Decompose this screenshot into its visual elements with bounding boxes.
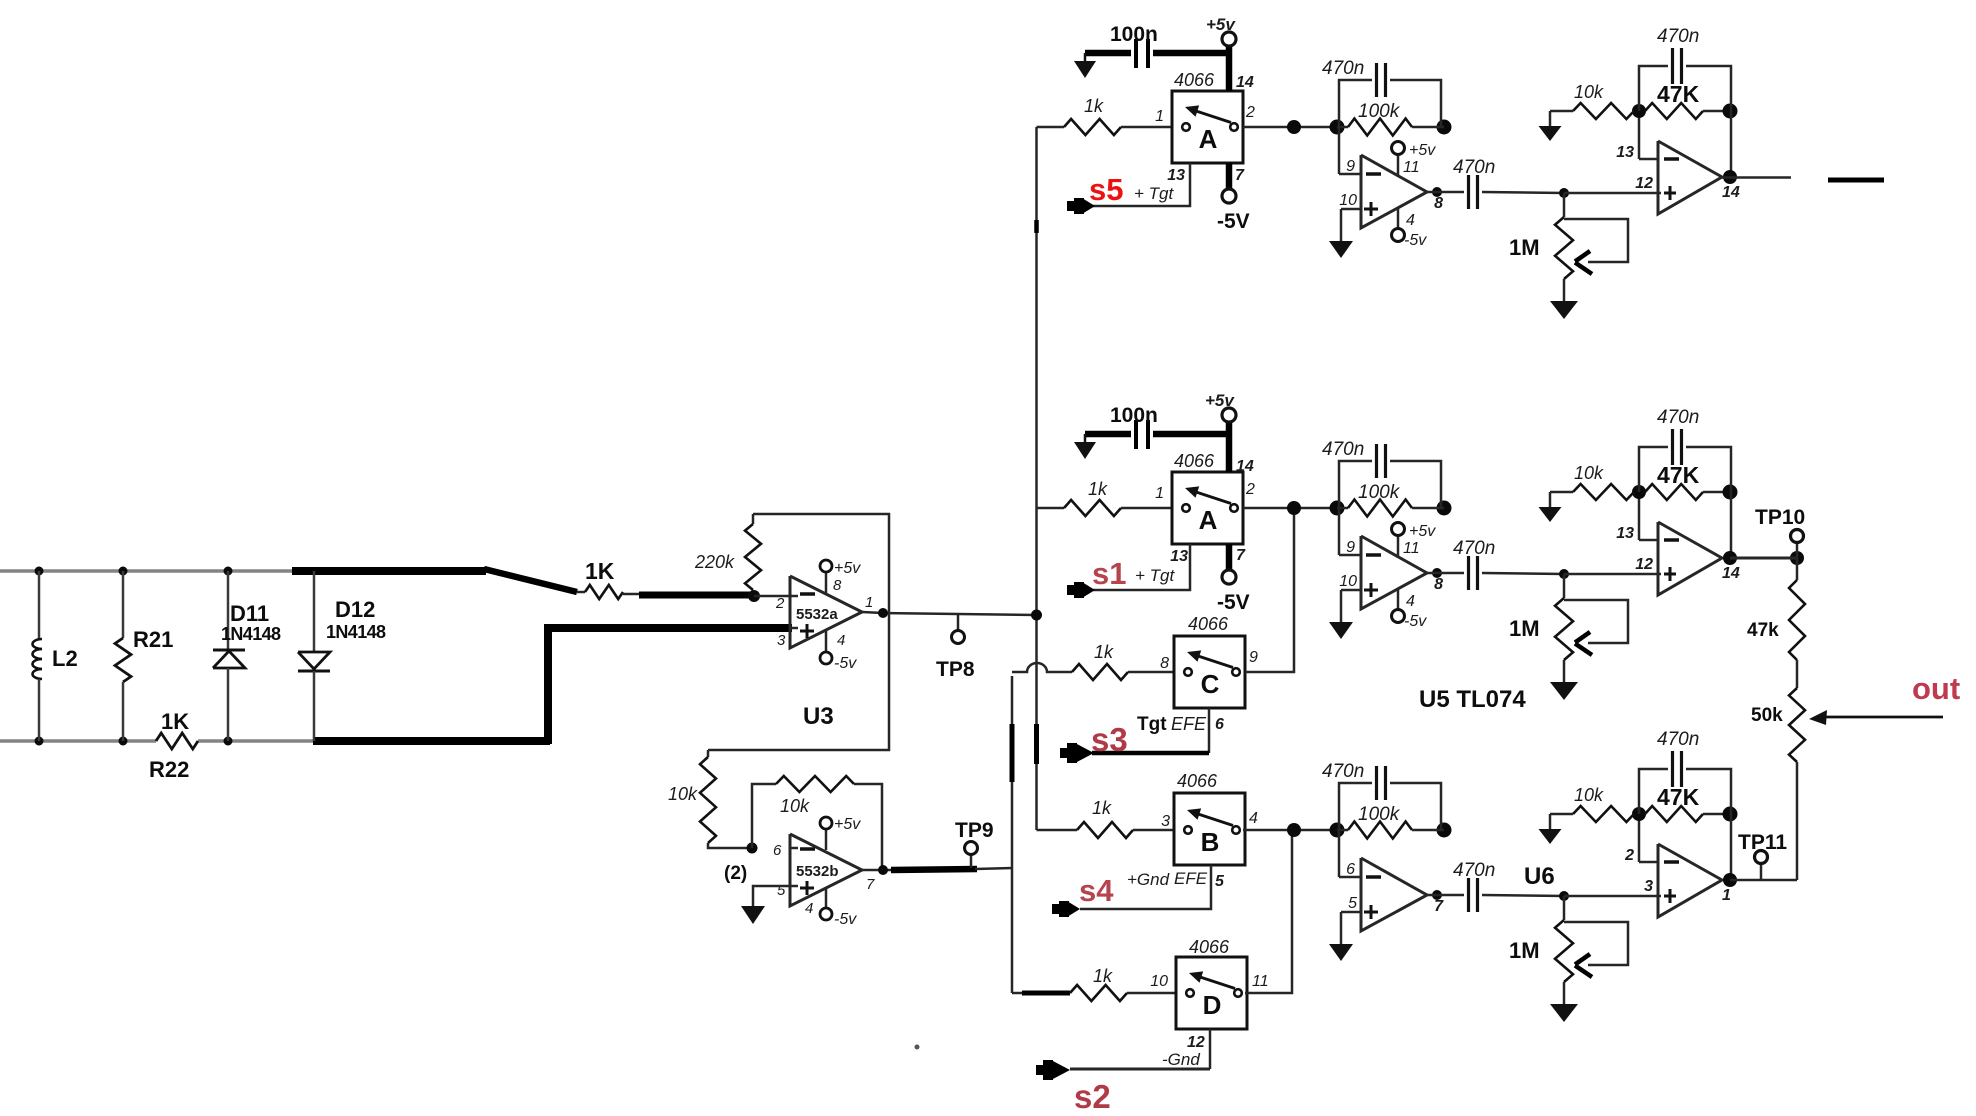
resistor 1k (C) [1072,664,1174,680]
label 1M (bot) [1509,938,1540,963]
label s4 [1079,873,1114,908]
diode D12 [298,571,330,741]
wire U3a output to bus [862,612,1036,615]
op-amp stage1 (top) [1339,127,1427,228]
label pin12 (D) [1187,1034,1205,1051]
label pin1 (top A) [1155,108,1164,125]
node TP10 [1790,551,1804,565]
node 100k right (top) [1437,120,1452,135]
label pin4 (B) [1249,810,1258,827]
label 1M (top) [1509,235,1540,260]
label +Gnd EFE [1127,869,1208,889]
svg-text:10k: 10k [668,784,698,804]
node 100k left (bot) [1330,823,1345,838]
wire bus to 1k (top) [1037,126,1065,129]
label 100k (mid) [1358,482,1401,503]
switch 4066 B [1174,793,1245,865]
pin14 +5v wire (top) [1222,32,1236,91]
test point TP9 [965,842,978,869]
node stage2 output (bot) [1723,873,1737,887]
svg-text:470n: 470n [1453,860,1495,881]
svg-text:5532a: 5532a [796,606,838,623]
node U3b output [878,865,888,875]
label 10k stage2 (bot) [1574,785,1604,805]
svg-text:470n: 470n [1453,538,1495,559]
pin14 +5v wire (mid) [1222,408,1236,472]
label 4066 (C) [1188,614,1229,634]
wire to +input (bot) [1564,895,1661,898]
svg-text:5: 5 [777,882,786,899]
label +5v stage1 (mid) [1409,523,1436,540]
svg-text:-5v: -5v [834,911,857,928]
svg-text:A: A [1199,505,1218,535]
wire C output up to mid node [1245,508,1294,672]
capacitor 470n series (bot) [1427,878,1564,912]
wire pin13 to s5 [1092,163,1190,206]
label pin2 (top A) [1245,104,1255,121]
label pin6 [773,842,782,859]
op-amp stage2 (top) [1639,141,1722,214]
label R21 [133,627,173,652]
wire bottom rail thick segment [313,737,550,745]
label pin4 stage1 (mid) [1406,593,1415,610]
svg-text:6: 6 [1346,861,1355,878]
resistor R22 1K [156,733,198,749]
svg-text:EFE: EFE [1174,869,1208,888]
op-amp stage2 (mid) [1639,522,1722,595]
node switch output (mid) [1287,501,1301,515]
label 4066 (mid) [1174,451,1215,471]
resistor R21 [115,571,131,741]
label pin11 (D) [1252,973,1269,990]
label pin+ stage2 (bot) [1644,878,1653,895]
node 47K right (top) [1723,104,1738,119]
label 5532b [796,863,839,880]
svg-text:3: 3 [777,632,786,649]
resistor 10k (U3 inter-stage) [700,750,750,848]
label 1k (mid) [1088,479,1108,499]
svg-text:out: out [1912,671,1960,706]
pin4 -5v (top) [1392,207,1405,242]
label Tgt EFE [1137,714,1207,735]
label out [1912,671,1960,706]
ground stage1 + input (top) [1329,209,1353,258]
label pin8 U3a [833,577,842,594]
signal arrow s2 [1036,1060,1070,1080]
ground 1M (mid) [1550,660,1578,700]
label TP8 [936,658,975,681]
svg-text:4066: 4066 [1189,937,1230,957]
ground 10k (top) [1539,111,1562,141]
resistor 100k (bot) [1337,822,1444,839]
label pin4 U3a [837,632,845,649]
ground 1M (bot) [1550,982,1578,1022]
svg-text:13: 13 [1616,144,1634,161]
capacitor 470n series (mid) [1427,556,1564,590]
test point TP11 [1755,851,1768,881]
wire pin13 up (bot) [1638,814,1641,862]
label +5v U3a [834,560,861,577]
svg-text:47K: 47K [1657,81,1700,107]
label + Tgt (s1) [1135,566,1175,585]
svg-text:D11: D11 [230,601,269,626]
switch 4066 A (top) [1172,91,1243,163]
wire bus B thick segment [1010,724,1015,782]
label pin5 (B) [1215,873,1225,890]
svg-text:100k: 100k [1358,101,1401,122]
resistor 1k (mid) [1064,500,1172,516]
svg-text:3: 3 [1644,878,1653,895]
svg-text:-5v: -5v [1404,613,1427,630]
svg-text:R21: R21 [133,627,173,652]
wire output (top) [1722,176,1791,179]
svg-text:10k: 10k [1574,82,1604,102]
svg-text:10k: 10k [1574,785,1604,805]
node 1M wiper junction (top) [1559,188,1569,198]
label 470n series (top) [1453,157,1495,178]
svg-text:9: 9 [1249,649,1258,666]
ground stage1 + input (mid) [1329,590,1353,639]
wire bus to 1k (mid) [1037,507,1065,510]
signal arrow s1 [1067,582,1095,598]
svg-text:470n: 470n [1657,26,1699,47]
node 47K right (mid) [1723,485,1738,500]
label 1M (mid) [1509,616,1540,641]
node stage1 output (bot) [1432,890,1442,900]
wire pin5 to ground [753,886,790,906]
label + Tgt (s5) [1134,184,1174,203]
op-amp stage1 (mid) [1339,508,1427,609]
pin7 -5V stem (top) [1222,163,1236,203]
svg-text:s5: s5 [1089,172,1123,207]
label pin13 (top A) [1167,167,1185,184]
resistor 10k stage2 (top) [1550,103,1634,119]
node stage2 output (mid) [1723,551,1737,565]
svg-text:2: 2 [775,595,785,612]
svg-text:(2): (2) [724,863,747,884]
pin11 +5v (top) [1392,142,1405,176]
label 470n stage2 (top) [1657,26,1699,47]
wire D output up to B node [1245,830,1292,993]
svg-text:+5v: +5v [834,816,861,833]
svg-text:11: 11 [1403,159,1420,176]
svg-text:EFE: EFE [1171,714,1207,734]
svg-text:6: 6 [1215,716,1224,733]
svg-text:6: 6 [773,842,782,859]
node 10k/47K (bot) [1632,807,1646,821]
svg-text:100n: 100n [1110,404,1158,427]
svg-text:4: 4 [1406,212,1415,229]
signal arrow s5 [1067,198,1095,214]
capacitor 470n stage2 (mid) [1639,429,1731,558]
resistor 47K (top) [1645,103,1730,119]
label pin+ (top) [1339,192,1357,209]
label -5v stage1 (mid) [1404,613,1427,630]
svg-text:C: C [1201,669,1220,699]
wire pin5 to s4 [1080,865,1211,909]
svg-text:1M: 1M [1509,616,1540,641]
label pin out stage1 (bot) [1434,898,1444,915]
svg-text:4066: 4066 [1177,771,1218,791]
label 1k (top) [1084,96,1104,116]
label pin11 (mid) [1403,540,1420,557]
label pin6 (C) [1215,716,1224,733]
label pin+ stage2 (mid) [1635,556,1653,573]
wire hop C row over bus A [1012,663,1072,672]
svg-text:11: 11 [1403,540,1420,557]
svg-text:11: 11 [1252,973,1269,990]
svg-text:7: 7 [866,876,875,893]
label pin8 (C) [1160,655,1169,672]
label 1k (D) [1093,966,1113,986]
label (2) [724,863,747,884]
trimmer 1M (mid) [1555,574,1628,660]
label pin out stage1 (mid) [1434,576,1443,593]
label 100n (top) [1110,23,1158,46]
diode D11 [213,571,245,741]
svg-text:3: 3 [1161,813,1170,830]
svg-text:+5v: +5v [834,560,861,577]
label pin out stage2 (bot) [1722,887,1731,904]
resistor 100k (top) [1337,119,1444,136]
svg-text:4066: 4066 [1174,70,1215,90]
wire pin6 to s3 [1092,708,1209,753]
svg-text:14: 14 [1722,565,1740,582]
ground 1M (top) [1550,279,1578,319]
label pin- stage2 (bot) [1624,847,1634,864]
wire node to pin2 [754,595,792,598]
node bus A / TP8 wire [1031,610,1042,621]
label 4066 (top) [1174,70,1215,90]
resistor 47K (mid) [1645,484,1730,500]
svg-text:14: 14 [1236,74,1254,91]
label pin out stage2 (top) [1722,184,1740,201]
svg-text:8: 8 [1434,195,1443,212]
node 1M wiper junction (mid) [1559,569,1569,579]
resistor 10k stage2 (bot) [1550,806,1634,822]
label pin3 [777,632,786,649]
svg-text:13: 13 [1167,167,1185,184]
node 100k left (top) [1330,120,1345,135]
label 50k [1751,705,1783,726]
svg-text:47K: 47K [1657,462,1700,488]
label L2 [52,646,78,671]
label 5532a [796,606,838,623]
svg-text:8: 8 [833,577,842,594]
wire pin12 to s2 [1070,1029,1210,1069]
svg-text:13: 13 [1170,548,1188,565]
svg-text:TP11: TP11 [1738,831,1787,854]
svg-text:9: 9 [1346,158,1355,175]
label 470n feedback (bot) [1322,761,1364,782]
capacitor 470n stage2 (top) [1639,48,1731,177]
svg-text:TP9: TP9 [955,819,994,842]
op-amp stage1 (bot) [1339,830,1427,931]
wire bus to 1k (B) [1037,829,1078,832]
svg-text:D: D [1203,990,1222,1020]
label 4066 (B) [1177,771,1218,791]
pin8 +5v stem U3b [820,817,832,850]
label +5v (mid 4066) [1205,391,1235,410]
label pin14 (top A) [1236,74,1254,91]
trimmer 1M (bot) [1555,896,1628,982]
op-amp stage2 (bot) [1639,844,1722,917]
svg-text:470n: 470n [1657,407,1699,428]
svg-text:+ Tgt: + Tgt [1134,184,1174,203]
capacitor 470n feedback (top) [1339,63,1441,127]
node stage1 output (mid) [1432,568,1442,578]
label U5 TL074 [1419,686,1526,713]
resistor 1k (B) [1077,822,1174,838]
label 1K (R22) [161,709,189,734]
capacitor 100n (mid) [1085,420,1229,449]
node 10k/47K (mid) [1632,485,1646,499]
label -5v U3a [834,655,857,672]
svg-text:+ Tgt: + Tgt [1135,566,1175,585]
resistor 1K (U3 input) [577,585,641,599]
label pin2 [775,595,785,612]
wire 5532b feedback [752,784,882,869]
svg-text:2: 2 [1245,104,1255,121]
wiper arrow out [1809,710,1943,725]
svg-text:1k: 1k [1088,479,1108,499]
node 100k right (mid) [1437,501,1452,516]
label s5 [1089,172,1123,207]
label 10k (inter-stage) [668,784,698,804]
wire stage2 out to TP10 (mid) [1730,557,1797,560]
label +5v stage1 (top) [1409,142,1436,159]
node 100k right (bot) [1437,823,1452,838]
label s1 [1092,556,1126,591]
svg-text:1: 1 [1155,485,1164,502]
svg-text:100k: 100k [1358,804,1401,825]
svg-text:470n: 470n [1322,439,1364,460]
label pin out stage2 (mid) [1722,565,1740,582]
svg-text:+5v: +5v [1409,523,1436,540]
label 10k (U3b feedback) [780,796,810,816]
svg-text:10: 10 [1339,573,1357,590]
op-amp U3b 5532b [790,834,862,906]
label pin- (mid) [1346,539,1355,556]
svg-text:470n: 470n [1322,761,1364,782]
wire pin13 up (mid) [1638,492,1641,540]
label 470n feedback (mid) [1322,439,1364,460]
ground 100n (top) [1074,53,1096,78]
node switch output (top) [1287,120,1301,134]
svg-text:1k: 1k [1092,798,1112,818]
label 47K (bot) [1657,784,1700,810]
svg-text:4: 4 [1406,593,1415,610]
label pin7 [866,876,875,893]
svg-text:U6: U6 [1524,863,1555,890]
svg-text:100k: 100k [1358,482,1401,503]
svg-text:R22: R22 [149,757,189,782]
node stage1 output (top) [1432,187,1442,197]
svg-text:B: B [1201,827,1220,857]
label 10k stage2 (mid) [1574,463,1604,483]
svg-text:U5 TL074: U5 TL074 [1419,686,1526,713]
wire slanted segment to 1K [484,569,577,592]
label 470n stage2 (bot) [1657,729,1699,750]
op-amp U3a 5532a [790,576,862,648]
svg-text:7: 7 [1235,167,1245,184]
label D12 [335,597,375,622]
label D12 1N4148 [326,622,386,642]
label 470n stage2 (mid) [1657,407,1699,428]
label pin+ (bot) [1348,895,1357,912]
label D11 1N4148 [221,624,281,644]
potentiometer 50k [1789,688,1805,880]
wire top rail thick segment [292,567,486,575]
svg-text:U3: U3 [803,703,834,730]
label pin9 (C) [1249,649,1258,666]
label -5V (mid) [1217,591,1250,614]
svg-text:1K: 1K [585,558,615,584]
label -5v U3b [834,911,857,928]
label pin4 U3b [805,900,813,917]
switch 4066 C [1174,636,1245,708]
resistor 47K (bot) [1645,806,1730,822]
label 470n series (mid) [1453,538,1495,559]
wire to +input (mid) [1564,573,1661,576]
resistor 10k (U3b feedback) [776,776,854,792]
ground 10k (bot) [1539,814,1562,844]
svg-text:10k: 10k [1574,463,1604,483]
label 1k (B) [1092,798,1112,818]
svg-text:TP10: TP10 [1755,506,1805,529]
resistor 1k (D) [1070,985,1176,1001]
resistor 1k (top) [1064,119,1172,135]
label R22 [149,757,189,782]
label TP9 [955,819,994,842]
ground 100n (mid) [1074,434,1096,459]
node bottom rail / D11 [224,737,233,746]
svg-text:7: 7 [1434,898,1444,915]
label pin7 (top A) [1235,167,1245,184]
svg-text:s1: s1 [1092,556,1126,591]
svg-text:470n: 470n [1322,58,1364,79]
svg-text:1k: 1k [1093,966,1113,986]
node top rail / R21 [119,567,128,576]
pin8 +5v stem U3a [820,560,832,594]
svg-text:8: 8 [1434,576,1443,593]
resistor 10k stage2 (mid) [1550,484,1634,500]
node bottom rail / L2 [35,737,44,746]
svg-text:47k: 47k [1747,620,1779,641]
ground stage1 + input (bot) [1329,912,1353,961]
label pin7 (mid A) [1236,547,1246,564]
svg-text:Tgt: Tgt [1137,714,1167,735]
svg-text:1N4148: 1N4148 [326,622,386,642]
wire pin13 up (top) [1638,111,1641,159]
svg-text:14: 14 [1236,458,1254,475]
signal arrow s3 [1060,743,1094,763]
capacitor 470n stage2 (bot) [1639,751,1731,880]
test point TP10 [1791,530,1804,559]
signal arrow s4 [1052,901,1080,917]
wire U3b output [862,868,1013,870]
svg-text:13: 13 [1616,525,1634,542]
label 470n series (bot) [1453,860,1495,881]
label 47k [1747,620,1779,641]
label pin1 [865,594,873,611]
label pin- stage2 (top) [1616,144,1634,161]
label -5v stage1 (top) [1404,232,1427,249]
svg-text:2: 2 [1245,481,1255,498]
pin7 -5V stem (mid) [1222,544,1236,584]
svg-text:14: 14 [1722,184,1740,201]
pin4 -5v (mid) [1392,588,1405,623]
